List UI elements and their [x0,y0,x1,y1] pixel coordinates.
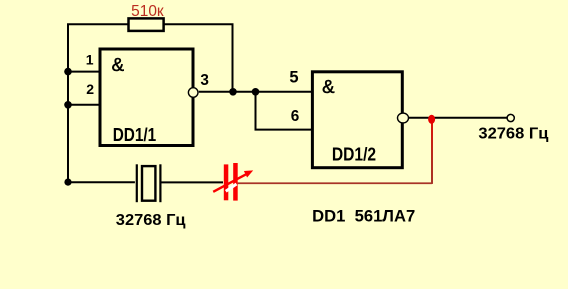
svg-text:DD1/1: DD1/1 [113,125,157,145]
svg-text:32768 Гц: 32768 Гц [116,212,186,229]
svg-text:32768 Гц: 32768 Гц [478,125,548,142]
svg-text:2: 2 [86,81,94,97]
svg-text:DD1/2: DD1/2 [332,144,376,164]
svg-text:1: 1 [86,52,94,68]
svg-text:&: & [112,54,125,75]
svg-text:3: 3 [200,72,209,89]
svg-text:5: 5 [289,68,298,86]
svg-text:510к: 510к [131,3,164,20]
svg-text:6: 6 [291,108,300,125]
svg-text:DD1 561ЛА7: DD1 561ЛА7 [312,208,415,226]
svg-text:&: & [322,76,335,97]
